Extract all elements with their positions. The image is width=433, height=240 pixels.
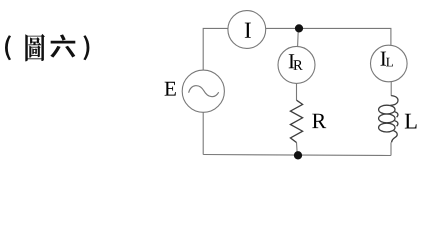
wire: ammeter I right along top to top-right corner down to IL meter — [266, 28, 391, 45]
label L — [405, 114, 417, 129]
wire: bottom horizontal — [203, 155, 391, 156]
junction dot bottom — [294, 151, 302, 159]
wire: E source bottom to bottom-left corner — [202, 112, 204, 154]
ammeter IR — [278, 46, 315, 83]
ammeter IL — [371, 45, 408, 82]
wire: inductor bottom to bottom-right corner — [390, 142, 392, 155]
label E — [165, 82, 176, 96]
ammeter I — [228, 11, 266, 49]
junction dot top — [295, 24, 303, 32]
wire: IR meter bottom to resistor top — [296, 83, 298, 100]
wire: IL meter bottom to inductor top — [390, 82, 392, 96]
inductor L — [379, 96, 398, 143]
wire: resistor bottom to bottom junction — [296, 143, 299, 156]
label R — [312, 114, 326, 128]
caption ( 圖六 ) — [5, 34, 89, 61]
resistor R — [290, 100, 302, 142]
wire: E source top to top-left corner to ammeter I left — [203, 28, 228, 70]
wire: top junction down to IR meter — [297, 28, 300, 46]
AC source E — [182, 70, 224, 112]
